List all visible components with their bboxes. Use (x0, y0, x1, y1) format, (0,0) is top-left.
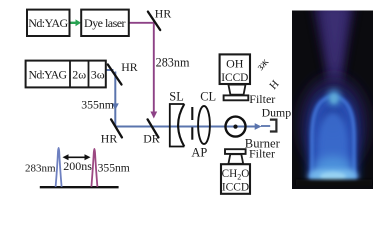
svg-text:Dump: Dump (262, 106, 292, 120)
svg-text:Burner: Burner (245, 136, 281, 150)
svg-text:355nm: 355nm (81, 98, 114, 112)
svg-text:355nm: 355nm (98, 161, 130, 174)
svg-text:CH2O: CH2O (222, 168, 250, 181)
svg-text:OH: OH (226, 57, 244, 71)
svg-text:Nd:YAG: Nd:YAG (28, 16, 68, 30)
svg-text:H: H (267, 78, 281, 92)
svg-text:283nm: 283nm (25, 162, 56, 174)
svg-text:SL: SL (169, 90, 183, 104)
svg-text:283nm: 283nm (156, 55, 190, 69)
svg-text:3ω: 3ω (91, 67, 105, 81)
svg-text:Nd:YAG: Nd:YAG (29, 67, 68, 81)
svg-text:ICCD: ICCD (221, 72, 248, 84)
svg-text:Dye laser: Dye laser (84, 16, 126, 30)
svg-text:200ns: 200ns (63, 159, 92, 173)
svg-text:DR: DR (143, 131, 160, 145)
svg-text:HR: HR (101, 131, 118, 145)
svg-text:HR: HR (121, 60, 138, 74)
svg-text:AP: AP (191, 146, 207, 160)
svg-text:CL: CL (200, 90, 216, 104)
svg-text:ICCD: ICCD (222, 181, 249, 193)
svg-text:HR: HR (155, 7, 172, 21)
svg-text:2ω: 2ω (72, 67, 86, 81)
svg-text:Filter: Filter (249, 92, 275, 106)
svg-text:зж: зж (254, 56, 271, 73)
